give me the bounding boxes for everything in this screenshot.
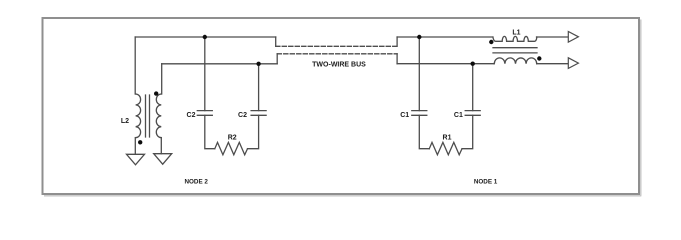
junction dot node1 top <box>417 35 421 39</box>
bus step top-left <box>275 37 277 46</box>
svg-text:TWO-WIRE BUS: TWO-WIRE BUS <box>312 61 366 68</box>
svg-text:L2: L2 <box>121 118 129 125</box>
phase dot L1 right <box>537 56 541 60</box>
svg-text:C1: C1 <box>400 112 409 119</box>
junction dot node1 bottom <box>471 62 475 66</box>
wire C2b drop <box>258 64 260 111</box>
capacitor C2b <box>251 111 266 116</box>
wire C1a drop <box>418 37 420 111</box>
capacitor C2a <box>197 111 212 116</box>
wire C2a drop <box>204 37 206 111</box>
arrow top <box>568 32 578 43</box>
transformer L2 right winding <box>156 94 161 138</box>
resistor R2 <box>215 142 248 154</box>
wire C1b bottom lead <box>462 115 473 148</box>
wire top-left horizontal <box>135 36 276 38</box>
capacitor C1a <box>412 111 427 116</box>
junction dot node2 bottom <box>256 62 260 66</box>
svg-text:C1: C1 <box>454 112 463 119</box>
ground right <box>154 154 172 165</box>
phase dot L2 left <box>138 140 142 144</box>
wire C1b drop <box>472 64 474 111</box>
wire lower-right horizontal <box>397 63 494 65</box>
svg-text:C2: C2 <box>238 112 247 119</box>
wire L2 right to ground <box>160 138 162 154</box>
transformer L2 left winding <box>136 94 141 138</box>
capacitor C1b <box>465 111 480 116</box>
wire top-right horizontal <box>397 36 493 38</box>
bus dashed line 1 <box>276 45 397 47</box>
wire vertical to L2 secondary <box>161 64 163 94</box>
bus step top-right <box>396 37 398 46</box>
wire C1a bottom lead <box>419 115 429 148</box>
wire left vertical to L2 primary <box>134 37 136 94</box>
wire L1 top out <box>537 36 569 38</box>
wire lower-left horizontal <box>162 63 278 65</box>
junction dot node2 top <box>203 35 207 39</box>
bus step bottom-left <box>276 54 278 64</box>
bus step bottom-right <box>396 54 398 64</box>
phase dot L2 right <box>154 91 158 95</box>
transformer L1 secondary winding <box>494 58 537 64</box>
transformer L1 primary winding <box>493 36 537 41</box>
svg-text:R1: R1 <box>443 134 452 141</box>
wire C2b bottom lead <box>248 115 259 148</box>
wire L1 bottom out <box>537 63 569 65</box>
transformer L1 core <box>493 48 537 53</box>
svg-text:R2: R2 <box>228 134 237 141</box>
border frame <box>43 18 640 194</box>
wire C2a bottom lead <box>205 115 215 148</box>
wire L2 left to ground <box>134 138 136 155</box>
bus dashed line 2 <box>277 53 397 55</box>
arrow bottom <box>568 58 578 69</box>
ground left <box>127 154 145 165</box>
svg-text:L1: L1 <box>512 29 520 36</box>
svg-text:C2: C2 <box>187 112 196 119</box>
phase dot L1 left <box>489 40 493 44</box>
svg-text:NODE 2: NODE 2 <box>184 179 208 186</box>
transformer L2 core <box>146 95 150 137</box>
svg-text:NODE 1: NODE 1 <box>474 179 498 186</box>
resistor R1 <box>429 142 462 154</box>
